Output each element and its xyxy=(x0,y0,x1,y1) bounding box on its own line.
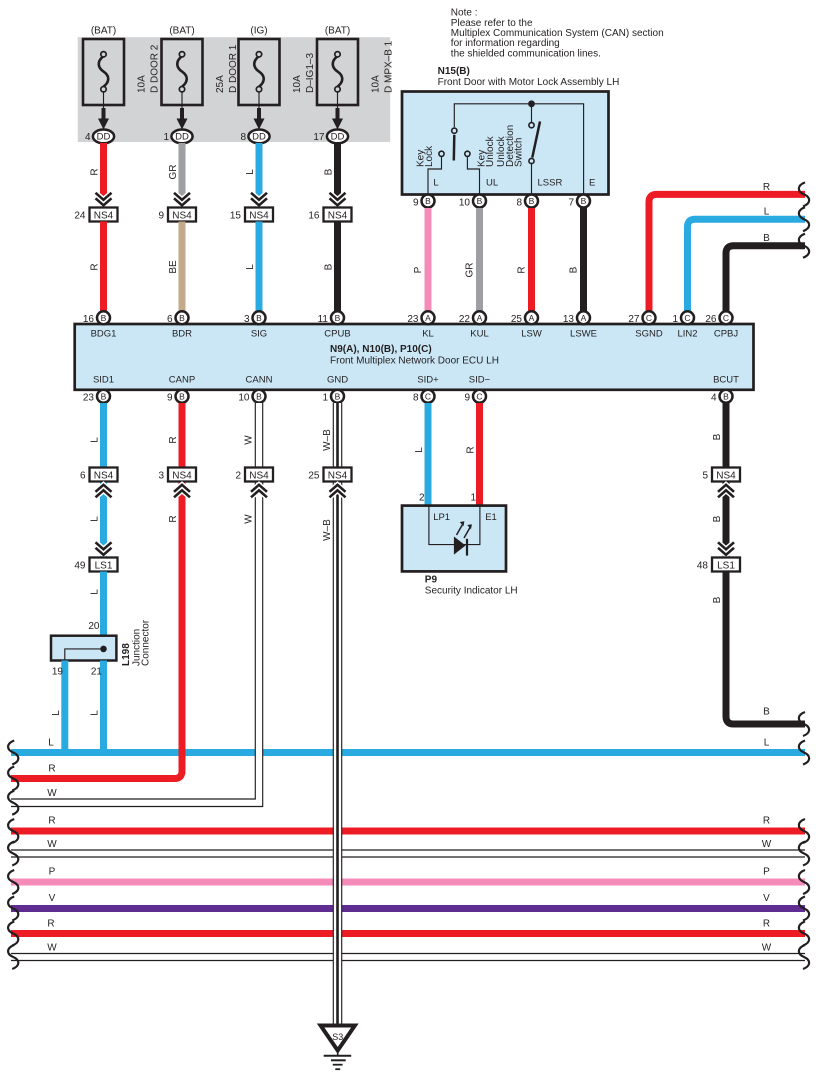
wire W-B from ECU GND to NS4 25 xyxy=(333,403,342,468)
ECU top pin 23 (A) xyxy=(407,311,434,325)
in-line connector NS4 2 xyxy=(235,468,273,498)
svg-text:L: L xyxy=(764,207,770,218)
svg-text:Front Multiplex Network Door E: Front Multiplex Network Door ECU LH xyxy=(330,356,499,367)
svg-text:10A: 10A xyxy=(371,75,382,93)
ECU bottom pin 9 (B) xyxy=(167,390,189,404)
svg-text:SID−: SID− xyxy=(469,375,491,386)
svg-text:1: 1 xyxy=(163,132,169,143)
wire fuse F4 output to connector DD xyxy=(332,92,343,130)
svg-text:P: P xyxy=(413,266,424,273)
svg-text:L: L xyxy=(245,169,256,175)
svg-text:BDG1: BDG1 xyxy=(91,329,117,340)
break symbol L right xyxy=(799,207,809,231)
svg-text:Front Door with Motor Lock Ass: Front Door with Motor Lock Assembly LH xyxy=(438,77,620,88)
in-line connector NS4 24 xyxy=(74,193,117,222)
svg-text:B: B xyxy=(477,196,483,206)
svg-text:L: L xyxy=(433,178,438,189)
svg-text:W–B: W–B xyxy=(322,519,333,541)
svg-text:BCUT: BCUT xyxy=(713,375,739,386)
svg-text:B: B xyxy=(723,392,729,402)
ECU bottom pin 1 (B) xyxy=(322,390,344,404)
svg-text:W: W xyxy=(47,788,57,799)
ECU top pin 16 (B) xyxy=(83,311,110,325)
svg-text:C: C xyxy=(476,392,482,402)
svg-text:GND: GND xyxy=(327,375,348,386)
break W left xyxy=(8,791,18,815)
svg-text:13: 13 xyxy=(563,314,575,325)
ECU bottom pin 4 (B) xyxy=(711,390,733,404)
svg-text:SIG: SIG xyxy=(251,329,267,340)
svg-text:B: B xyxy=(763,707,770,718)
ECU bottom pin names xyxy=(93,375,739,386)
ground S3 xyxy=(321,1026,355,1070)
break R2 left xyxy=(8,819,18,843)
svg-text:B: B xyxy=(529,196,535,206)
svg-text:N9(A), N10(B), P10(C): N9(A), N10(B), P10(C) xyxy=(330,344,432,355)
in-line connector NS4 9 xyxy=(158,193,196,222)
svg-text:B: B xyxy=(335,392,341,402)
svg-text:S3: S3 xyxy=(332,1032,343,1042)
svg-text:(BAT): (BAT) xyxy=(91,26,116,37)
svg-text:B: B xyxy=(763,233,770,244)
in-line connector NS4 15 xyxy=(230,193,273,222)
svg-text:21: 21 xyxy=(91,667,103,678)
svg-text:4: 4 xyxy=(711,393,717,404)
svg-text:W: W xyxy=(244,514,255,524)
svg-text:B: B xyxy=(712,515,723,522)
svg-text:6: 6 xyxy=(80,471,86,482)
break R3 left xyxy=(8,922,18,946)
svg-text:NS4: NS4 xyxy=(328,471,348,482)
wire B from ECU BCUT to NS4 5 xyxy=(723,403,730,468)
svg-text:A: A xyxy=(581,313,587,323)
svg-text:GR: GR xyxy=(168,165,179,180)
svg-text:3: 3 xyxy=(158,471,164,482)
svg-text:W: W xyxy=(244,435,255,445)
svg-text:B: B xyxy=(425,196,431,206)
ECU top pin 25 (A) xyxy=(511,311,538,325)
svg-text:LIN2: LIN2 xyxy=(677,329,697,340)
N15 pin 10 (B) xyxy=(459,195,486,209)
svg-text:4: 4 xyxy=(85,132,91,143)
break P left xyxy=(8,870,18,894)
svg-text:(BAT): (BAT) xyxy=(325,26,350,37)
svg-text:Lock: Lock xyxy=(424,145,435,167)
fuse F2 25A D DOOR 1 xyxy=(162,26,240,106)
svg-text:3: 3 xyxy=(244,314,250,325)
in-line connector LS1 49 xyxy=(74,542,117,571)
svg-text:Security Indicator LH: Security Indicator LH xyxy=(425,586,518,597)
wire L from NS4 6 to LS1 49 xyxy=(100,482,107,558)
svg-text:B: B xyxy=(569,266,580,273)
svg-text:SID1: SID1 xyxy=(93,375,114,386)
svg-text:KL: KL xyxy=(422,329,434,340)
svg-text:B: B xyxy=(335,313,341,323)
in-line connector LS1 48 xyxy=(697,542,740,571)
svg-text:L: L xyxy=(51,710,62,716)
svg-text:6: 6 xyxy=(167,314,173,325)
svg-text:CANN: CANN xyxy=(246,375,273,386)
in-line connector NS4 25 xyxy=(308,468,351,498)
ECU bottom pin 8 (C) xyxy=(413,390,435,404)
svg-text:P9: P9 xyxy=(425,574,438,585)
wire W from NS4 2 down then left to edge xyxy=(11,482,259,803)
svg-text:W: W xyxy=(762,839,772,850)
svg-text:1: 1 xyxy=(672,314,678,325)
wire L from LS1 49 to junction connector L198 pin 20 xyxy=(100,572,107,637)
svg-text:A: A xyxy=(477,313,483,323)
N15 pin 8 (B) xyxy=(516,195,538,209)
svg-text:NS4: NS4 xyxy=(328,211,348,222)
fuse block background band xyxy=(78,37,391,142)
svg-text:E: E xyxy=(589,178,595,189)
svg-text:L: L xyxy=(245,264,256,270)
svg-text:26: 26 xyxy=(705,314,717,325)
horizontal wire P xyxy=(11,879,805,886)
ECU top pin 3 (B) xyxy=(244,311,266,325)
horizontal wire L (full width) xyxy=(11,749,805,756)
svg-text:2: 2 xyxy=(235,471,241,482)
wire B from N15 to ECU pin 13 xyxy=(580,208,587,312)
N15 pin 7 (B) xyxy=(568,195,590,209)
junction node in N15 xyxy=(528,100,535,107)
ECU bottom pin 23 (B) xyxy=(83,390,110,404)
wire fuse F3 output to connector DD xyxy=(254,92,265,130)
svg-text:NS4: NS4 xyxy=(249,471,269,482)
svg-text:Connector: Connector xyxy=(141,619,152,666)
ECU bottom pin 10 (B) xyxy=(238,390,265,404)
break W2 right xyxy=(799,842,809,866)
svg-text:A: A xyxy=(529,313,535,323)
svg-text:B: B xyxy=(324,263,335,270)
svg-text:9: 9 xyxy=(158,211,164,222)
svg-text:L: L xyxy=(90,516,101,522)
svg-text:BE: BE xyxy=(168,260,179,274)
ECU bottom pin 9 (C) xyxy=(464,390,486,404)
svg-text:B: B xyxy=(101,313,107,323)
svg-text:LSW: LSW xyxy=(521,329,542,340)
svg-text:5: 5 xyxy=(702,471,708,482)
svg-text:L: L xyxy=(764,738,770,749)
svg-text:R: R xyxy=(168,515,179,522)
horizontal wire R (row 3) xyxy=(11,930,805,937)
svg-text:W: W xyxy=(47,943,57,954)
svg-text:NS4: NS4 xyxy=(172,471,192,482)
svg-text:DD: DD xyxy=(175,132,189,143)
svg-text:B: B xyxy=(256,313,262,323)
LED symbol in P9 xyxy=(454,521,472,555)
svg-text:L198: L198 xyxy=(121,643,132,666)
wire L from L198 pin 19 down to horizontal L xyxy=(61,661,68,753)
svg-text:NS4: NS4 xyxy=(94,471,114,482)
internal bus wire in N15 xyxy=(454,104,583,194)
svg-text:E1: E1 xyxy=(485,512,497,523)
wire fuse F1 output to connector DD xyxy=(98,92,109,130)
in-line connector NS4 16 xyxy=(308,193,351,222)
svg-text:CPUB: CPUB xyxy=(324,329,350,340)
svg-text:NS4: NS4 xyxy=(172,211,192,222)
fuse F3 10A D-IG1-3 xyxy=(239,26,317,106)
svg-text:KUL: KUL xyxy=(470,329,488,340)
svg-text:N15(B): N15(B) xyxy=(438,66,470,77)
ECU top pin 1 (C) xyxy=(672,311,694,325)
svg-text:(BAT): (BAT) xyxy=(169,26,194,37)
break R left xyxy=(8,767,18,791)
ECU top pin 13 (A) xyxy=(563,311,590,325)
svg-text:48: 48 xyxy=(697,561,709,572)
ECU top pin 26 (C) xyxy=(705,311,732,325)
svg-text:8: 8 xyxy=(413,393,419,404)
in-line connector NS4 3 xyxy=(158,468,196,498)
svg-text:23: 23 xyxy=(407,314,419,325)
wire R from ECU SGND to right edge xyxy=(649,194,805,312)
svg-text:GR: GR xyxy=(465,263,476,278)
svg-text:LS1: LS1 xyxy=(717,561,735,572)
svg-text:23: 23 xyxy=(83,393,95,404)
svg-text:(IG): (IG) xyxy=(250,26,267,37)
svg-text:49: 49 xyxy=(74,561,86,572)
svg-text:B: B xyxy=(101,392,107,402)
key lock switch in N15 xyxy=(416,128,457,194)
wire L from ECU SID+ to P9 pin 2 xyxy=(425,403,432,506)
horizontal wire V xyxy=(11,905,805,912)
svg-text:D DOOR 2: D DOOR 2 xyxy=(150,44,161,93)
svg-text:17: 17 xyxy=(313,132,325,143)
ECU top pin 22 (A) xyxy=(459,311,486,325)
svg-text:NS4: NS4 xyxy=(94,211,114,222)
svg-text:SID+: SID+ xyxy=(417,375,439,386)
wire B from LS1 48 down then right to edge xyxy=(726,572,805,725)
svg-text:R: R xyxy=(48,816,55,827)
svg-text:B: B xyxy=(712,596,723,603)
svg-text:C: C xyxy=(425,392,431,402)
wire fuse F2 output to connector DD xyxy=(177,92,188,130)
break V left xyxy=(8,897,18,921)
svg-text:P: P xyxy=(763,867,770,878)
svg-text:B: B xyxy=(324,168,335,175)
wire R from NS4 24 to ECU pin 16 xyxy=(100,222,107,313)
wire R from ECU SID- to P9 pin 1 xyxy=(476,403,483,506)
note text block xyxy=(451,8,664,60)
svg-text:B: B xyxy=(712,433,723,440)
in-line connector NS4 5 xyxy=(702,468,740,498)
wire L from ECU LIN2 to right edge xyxy=(688,219,806,312)
svg-text:L: L xyxy=(414,447,425,453)
svg-text:R: R xyxy=(168,436,179,443)
svg-text:LS1: LS1 xyxy=(95,561,113,572)
svg-text:R: R xyxy=(90,263,101,270)
connector DD pin 17 xyxy=(313,130,348,144)
svg-text:9: 9 xyxy=(167,393,173,404)
wire GR from DD to NS4 9 xyxy=(179,143,186,208)
key unlock switch contact in N15 xyxy=(465,135,498,194)
wire B from ECU CPBJ to right edge xyxy=(726,246,805,312)
svg-text:16: 16 xyxy=(83,314,95,325)
svg-text:R: R xyxy=(48,764,55,775)
ECU top pin 6 (B) xyxy=(167,311,189,325)
svg-text:W: W xyxy=(762,943,772,954)
svg-text:BDR: BDR xyxy=(172,329,192,340)
ECU top pin 27 (C) xyxy=(628,311,655,325)
wire L from L198 pin 21 down to horizontal L xyxy=(100,661,107,753)
svg-text:D MPX–B 1: D MPX–B 1 xyxy=(384,40,395,93)
fuse F4 10A D MPX-B 1 xyxy=(317,26,395,106)
svg-text:2: 2 xyxy=(419,493,425,504)
svg-text:R: R xyxy=(763,182,770,193)
svg-text:9: 9 xyxy=(464,393,470,404)
svg-text:10: 10 xyxy=(238,393,250,404)
svg-text:R: R xyxy=(47,919,54,930)
wire L from ECU SID1 to NS4 6 xyxy=(100,403,107,468)
ECU top pin names xyxy=(91,329,739,340)
svg-text:11: 11 xyxy=(318,314,329,325)
svg-text:P: P xyxy=(49,867,56,878)
svg-text:20: 20 xyxy=(88,621,100,632)
svg-text:L: L xyxy=(90,437,101,443)
svg-text:DD: DD xyxy=(252,132,266,143)
svg-text:DD: DD xyxy=(97,132,111,143)
junction connector L198 xyxy=(51,619,152,666)
svg-text:1: 1 xyxy=(322,393,328,404)
horizontal wire R (row 2) xyxy=(11,828,805,835)
break V right xyxy=(799,897,809,921)
svg-text:LSWE: LSWE xyxy=(570,329,597,340)
break W2 left xyxy=(8,842,18,866)
svg-text:UL: UL xyxy=(486,178,498,189)
unlock detection switch in N15 xyxy=(496,107,562,194)
svg-text:7: 7 xyxy=(568,197,574,208)
svg-text:R: R xyxy=(763,816,770,827)
wire GR from N15 to ECU pin 22 xyxy=(476,208,483,312)
wire L from NS4 15 to ECU pin 3 xyxy=(256,222,263,313)
svg-text:1: 1 xyxy=(470,493,476,504)
svg-text:V: V xyxy=(763,893,770,904)
svg-text:LP1: LP1 xyxy=(433,512,450,523)
wire W from ECU CANN to NS4 2 xyxy=(255,403,263,468)
svg-text:25: 25 xyxy=(308,471,320,482)
svg-text:25: 25 xyxy=(511,314,523,325)
svg-text:R: R xyxy=(763,919,770,930)
break R3 right xyxy=(799,922,809,946)
wire R from NS4 3 down then left to edge xyxy=(11,482,182,779)
svg-text:16: 16 xyxy=(308,211,320,222)
break L left xyxy=(8,741,18,765)
svg-text:DD: DD xyxy=(331,132,345,143)
in-line connector NS4 6 xyxy=(80,468,118,498)
svg-text:D–IG1–3: D–IG1–3 xyxy=(305,53,316,93)
wire R from ECU CANP to NS4 3 xyxy=(179,403,186,468)
connector DD pin 1 xyxy=(163,130,192,144)
svg-text:B: B xyxy=(581,196,587,206)
svg-text:15: 15 xyxy=(230,211,242,222)
svg-text:W–B: W–B xyxy=(322,429,333,451)
break W3 left xyxy=(8,945,18,969)
fuse F1 10A D DOOR 2 xyxy=(83,26,161,106)
svg-text:25A: 25A xyxy=(215,75,226,93)
N15 pin 9 (B) xyxy=(413,195,435,209)
svg-text:V: V xyxy=(49,893,56,904)
svg-text:R: R xyxy=(517,266,528,273)
svg-text:9: 9 xyxy=(413,197,419,208)
svg-text:W: W xyxy=(47,839,57,850)
svg-text:B: B xyxy=(256,392,262,402)
break L right xyxy=(799,741,809,765)
connector DD pin 8 xyxy=(240,130,269,144)
svg-text:19: 19 xyxy=(52,667,64,678)
svg-text:A: A xyxy=(425,313,431,323)
break symbol R right xyxy=(799,182,809,206)
svg-text:LSSR: LSSR xyxy=(538,178,563,189)
component P9 Security Indicator LH xyxy=(402,506,518,597)
svg-text:24: 24 xyxy=(74,211,86,222)
svg-text:27: 27 xyxy=(628,314,640,325)
svg-text:22: 22 xyxy=(459,314,471,325)
svg-text:B: B xyxy=(179,392,185,402)
ECU N9(A),N10(B),P10(C) Front Multiplex Network Door ECU LH xyxy=(75,324,754,390)
svg-text:L: L xyxy=(90,589,101,595)
svg-text:Switch: Switch xyxy=(514,138,525,167)
break P right xyxy=(799,870,809,894)
ECU top pin 11 (B) xyxy=(318,311,344,325)
wire B from DD to NS4 16 xyxy=(334,143,341,208)
break W3 right xyxy=(799,945,809,969)
wire R from DD to NS4 24 xyxy=(100,143,107,208)
svg-text:B: B xyxy=(179,313,185,323)
svg-text:R: R xyxy=(466,446,477,453)
svg-text:NS4: NS4 xyxy=(249,211,269,222)
svg-text:L: L xyxy=(90,710,101,716)
break R2 right xyxy=(799,819,809,843)
svg-text:C: C xyxy=(684,313,690,323)
break symbol B right xyxy=(799,234,809,258)
svg-text:10A: 10A xyxy=(292,75,303,93)
component N15(B) Front Door with Motor Lock Assembly LH xyxy=(402,66,619,195)
wire B from NS4 16 to ECU pin 11 xyxy=(334,222,341,313)
svg-text:L: L xyxy=(48,738,54,749)
wire BE from NS4 9 to ECU pin 6 xyxy=(179,222,186,313)
wire W-B from NS4 25 down to ground S3 xyxy=(333,482,342,1026)
svg-text:C: C xyxy=(723,313,729,323)
svg-text:Unlock: Unlock xyxy=(485,135,496,167)
svg-text:10: 10 xyxy=(459,197,471,208)
svg-text:SGND: SGND xyxy=(635,329,663,340)
wire P from N15 to ECU pin 23 xyxy=(425,208,432,312)
wire R from N15 to ECU pin 25 xyxy=(528,208,535,312)
svg-text:NS4: NS4 xyxy=(716,471,736,482)
svg-text:8: 8 xyxy=(516,197,522,208)
svg-text:the shielded communication lin: the shielded communication lines. xyxy=(451,48,601,59)
svg-text:C: C xyxy=(646,313,652,323)
horizontal wire W (row 3) xyxy=(11,953,805,961)
svg-text:8: 8 xyxy=(240,132,246,143)
svg-text:R: R xyxy=(90,168,101,175)
wire B from NS4 5 to LS1 48 xyxy=(723,482,730,558)
connector DD pin 4 xyxy=(85,130,114,144)
break B right (BCUT) xyxy=(799,712,809,736)
svg-text:10A: 10A xyxy=(137,75,148,93)
svg-text:CPBJ: CPBJ xyxy=(714,329,739,340)
wire L from DD to NS4 15 xyxy=(256,143,263,208)
svg-text:CANP: CANP xyxy=(169,375,195,386)
horizontal wire W (row 2) xyxy=(11,850,805,858)
